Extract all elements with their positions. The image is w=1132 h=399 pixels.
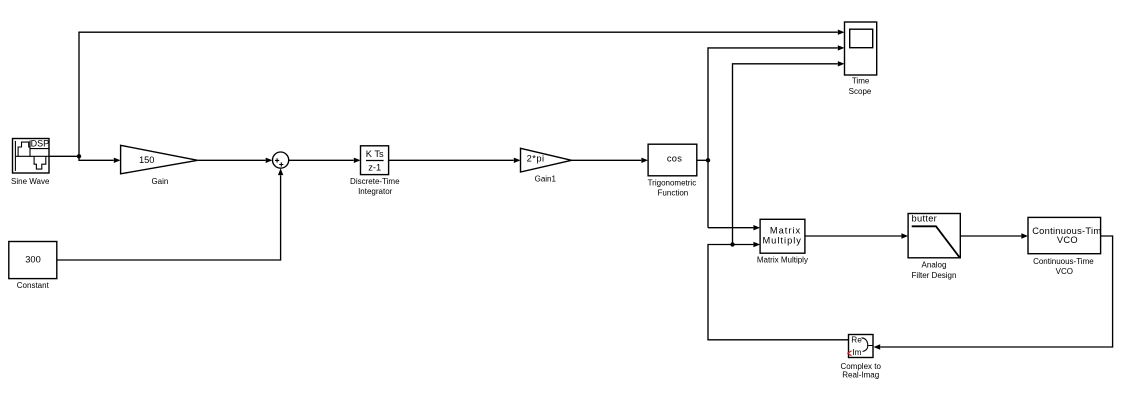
wire vertical732-scope-input3 bbox=[733, 64, 838, 245]
wire feedback complex-to-matrix-input2 bbox=[708, 245, 849, 340]
sum block bbox=[273, 152, 289, 168]
svg-text:2*pi: 2*pi bbox=[527, 154, 545, 164]
block Time Scope bbox=[845, 22, 877, 75]
svg-text:Discrete-Time: Discrete-Time bbox=[350, 177, 400, 186]
wire integrator-to-gain1 bbox=[389, 159, 514, 161]
node junction3 (732.5,244.5) bbox=[730, 242, 734, 246]
svg-text:Re: Re bbox=[851, 336, 862, 345]
svg-text:Constant: Constant bbox=[17, 281, 50, 290]
wire filter-to-vco bbox=[960, 235, 1021, 237]
svg-text:300: 300 bbox=[25, 255, 41, 265]
block Analog Filter Design bbox=[908, 214, 960, 258]
wire vco-loop-to-complex bbox=[880, 236, 1112, 347]
wire matrix-to-filter bbox=[805, 235, 902, 237]
svg-text:150: 150 bbox=[139, 155, 155, 165]
svg-text:DSP: DSP bbox=[31, 139, 50, 149]
block Gain bbox=[121, 145, 198, 174]
svg-text:Matrix Multiply: Matrix Multiply bbox=[757, 255, 808, 264]
block Constant bbox=[9, 242, 57, 279]
wire gain-to-sum bbox=[198, 159, 266, 161]
wire gain1-to-cos bbox=[572, 159, 642, 161]
wire vertical708-to-matrix-input1 bbox=[708, 227, 753, 229]
svg-text:Gain1: Gain1 bbox=[535, 175, 557, 184]
block Sine Wave bbox=[13, 139, 50, 174]
svg-text:Trigonometric: Trigonometric bbox=[648, 178, 697, 187]
wire vertical708-scope-input2 bbox=[708, 48, 838, 228]
unconnected Im port (red) bbox=[848, 351, 852, 356]
wire sine-to-junction bbox=[49, 155, 79, 157]
block Trigonometric Function bbox=[648, 144, 697, 176]
svg-text:Multiply: Multiply bbox=[762, 236, 802, 246]
svg-text:VCO: VCO bbox=[1057, 235, 1078, 245]
block Discrete-Time Integrator bbox=[361, 146, 389, 175]
svg-text:Integrator: Integrator bbox=[358, 187, 393, 196]
node junction1 (79,156) bbox=[77, 154, 81, 158]
svg-text:Sine Wave: Sine Wave bbox=[11, 177, 50, 186]
wire junction1-jog-to-gain bbox=[79, 156, 114, 160]
svg-text:Gain: Gain bbox=[151, 177, 168, 186]
svg-text:Continuous-Time: Continuous-Time bbox=[1033, 257, 1094, 266]
svg-text:Time: Time bbox=[852, 76, 870, 85]
svg-text:z-1: z-1 bbox=[368, 163, 381, 173]
block Continuous-Time VCO bbox=[1028, 217, 1107, 253]
svg-text:cos: cos bbox=[667, 154, 682, 164]
svg-text:Scope: Scope bbox=[849, 87, 872, 96]
svg-text:butter: butter bbox=[912, 214, 938, 224]
svg-text:Function: Function bbox=[658, 188, 689, 197]
wire sum-to-integrator bbox=[289, 159, 354, 161]
svg-text:Real-Imag: Real-Imag bbox=[842, 371, 879, 380]
node junction2 (708,160) bbox=[706, 158, 710, 162]
svg-text:Analog: Analog bbox=[922, 261, 947, 270]
wire cos-to-junction2 bbox=[697, 159, 708, 161]
svg-text:Matrix: Matrix bbox=[770, 226, 801, 236]
block Complex to Real-Imag bbox=[848, 335, 873, 358]
svg-text:VCO: VCO bbox=[1056, 267, 1073, 276]
wire constant-to-sum bbox=[57, 175, 281, 260]
svg-text:Im: Im bbox=[852, 348, 861, 357]
svg-text:K Ts: K Ts bbox=[366, 149, 384, 159]
svg-text:Complex to: Complex to bbox=[840, 362, 881, 371]
wire junction1-up-to-scope-input1 bbox=[79, 32, 838, 156]
block Gain1 bbox=[521, 148, 572, 172]
block Matrix Multiply bbox=[760, 219, 805, 253]
svg-text:Filter Design: Filter Design bbox=[912, 271, 957, 280]
